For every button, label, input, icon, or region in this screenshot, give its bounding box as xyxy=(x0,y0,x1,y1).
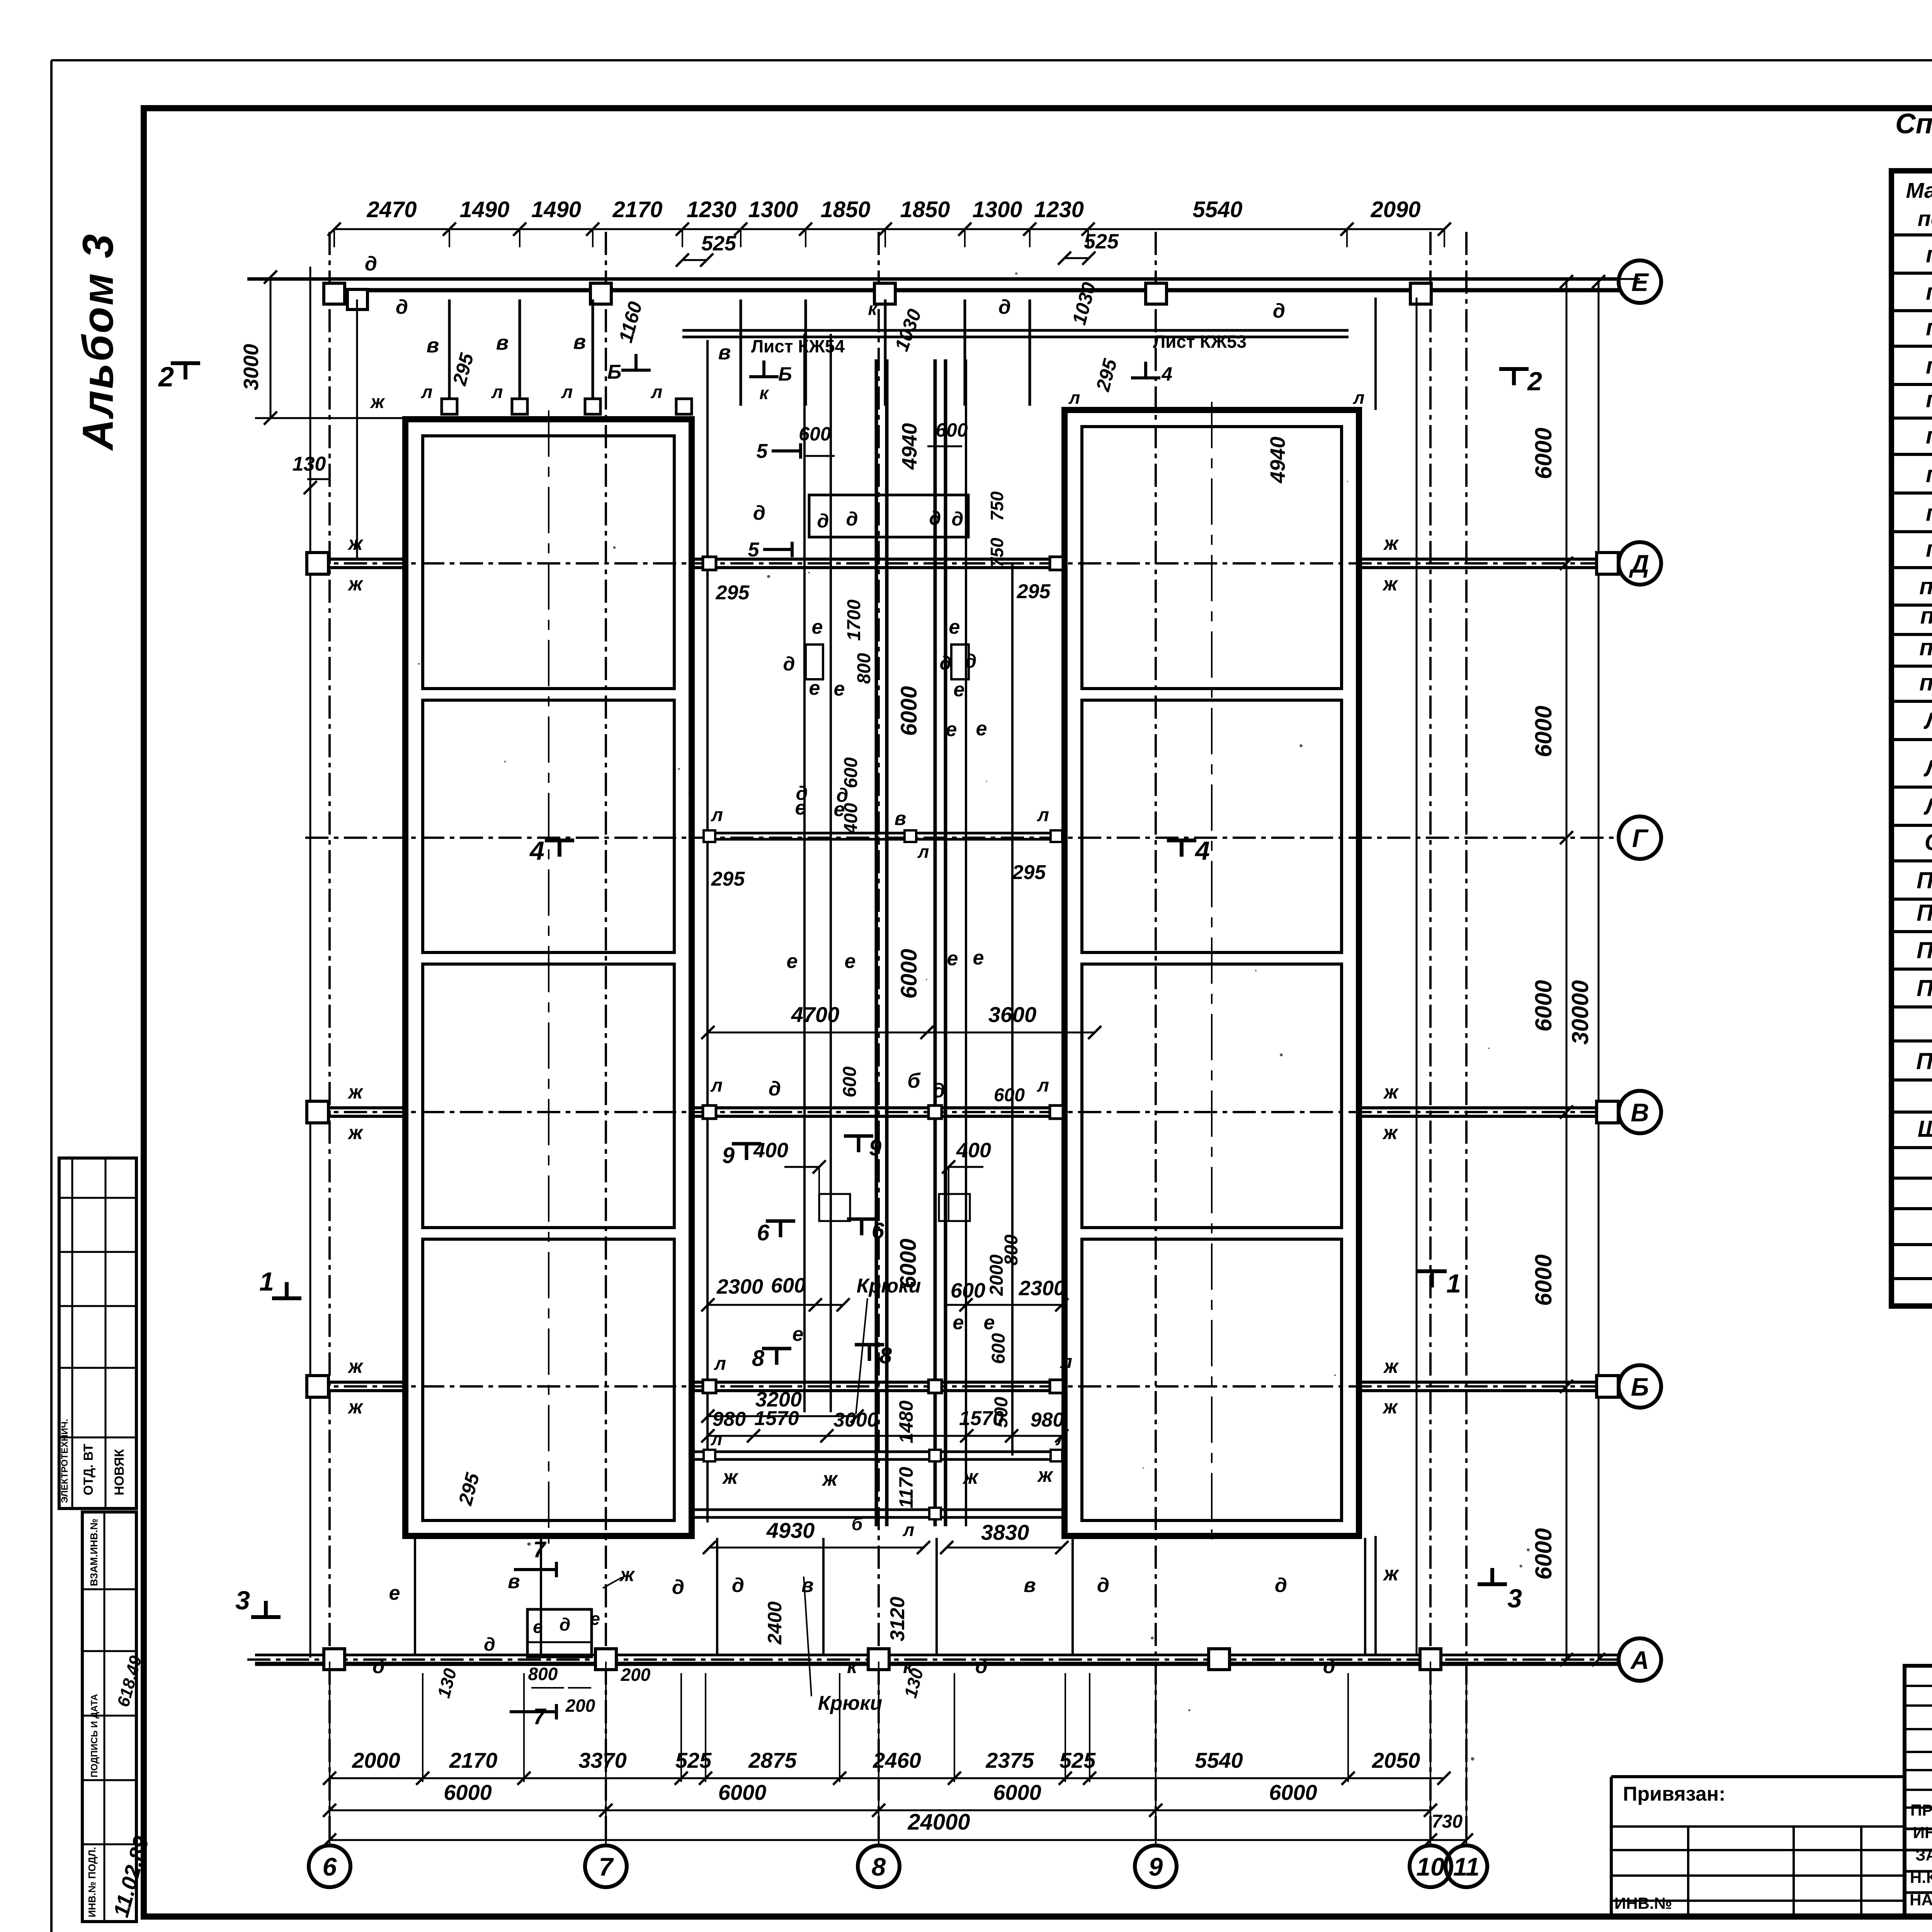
svg-text:ж: ж xyxy=(347,573,364,595)
svg-text:1300: 1300 xyxy=(972,197,1022,222)
svg-text:ПП1: ПП1 xyxy=(1916,1048,1932,1074)
svg-text:6000: 6000 xyxy=(1531,706,1556,757)
svg-text:1490: 1490 xyxy=(531,197,581,222)
corridor beam at axis V xyxy=(695,1106,1062,1109)
svg-text:л: л xyxy=(1060,1352,1072,1372)
svg-text:2400: 2400 xyxy=(764,1601,786,1645)
svg-text:ж: ж xyxy=(619,1564,635,1585)
svg-text:л: л xyxy=(903,1520,915,1540)
privyazan attachment box xyxy=(1611,1775,1905,1778)
svg-text:л: л xyxy=(651,382,663,402)
svg-text:п13: п13 xyxy=(1919,670,1932,696)
svg-text:д: д xyxy=(753,502,765,524)
right tank outer wall xyxy=(1065,410,1359,1536)
svg-text:п10: п10 xyxy=(1919,573,1932,599)
svg-text:д: д xyxy=(1275,1574,1287,1597)
svg-text:л: л xyxy=(1037,805,1049,825)
svg-text:д: д xyxy=(484,1634,495,1655)
svg-text:ж: ж xyxy=(1383,1081,1399,1103)
svg-text:поз.: поз. xyxy=(1918,206,1932,231)
svg-text:НАЧ.ОТД: НАЧ.ОТД xyxy=(1910,1891,1932,1909)
svg-text:Л2: Л2 xyxy=(1923,755,1932,781)
section marker T4 right xyxy=(1180,840,1184,857)
svg-text:д: д xyxy=(940,652,952,674)
svg-text:п12: п12 xyxy=(1919,634,1932,660)
svg-text:ж: ж xyxy=(1037,1464,1054,1486)
svg-text:1: 1 xyxy=(259,1267,274,1296)
beam end plates at tank top xyxy=(442,399,457,414)
svg-text:д: д xyxy=(365,253,377,275)
svg-text:Крюки: Крюки xyxy=(818,1692,883,1714)
svg-text:2470: 2470 xyxy=(366,197,417,222)
svg-text:д: д xyxy=(372,1655,385,1678)
corridor beam at axis B xyxy=(695,1381,1062,1384)
svg-text:л: л xyxy=(561,382,573,402)
svg-text:ж: ж xyxy=(962,1466,979,1488)
svg-text:1170: 1170 xyxy=(895,1467,917,1509)
svg-text:600: 600 xyxy=(951,1279,985,1302)
svg-text:5540: 5540 xyxy=(1192,197,1242,222)
section marker T1 right xyxy=(1430,1271,1434,1287)
svg-text:ИНЖЕН.: ИНЖЕН. xyxy=(1913,1823,1932,1842)
svg-text:к: к xyxy=(868,299,878,319)
corridor beam y3917 xyxy=(695,1509,1062,1511)
axis circles right E D G V B A xyxy=(1619,260,1661,303)
svg-text:1850: 1850 xyxy=(900,197,950,222)
svg-text:6000: 6000 xyxy=(1531,428,1556,479)
svg-text:ж: ж xyxy=(1382,1396,1398,1418)
svg-text:6: 6 xyxy=(757,1220,770,1245)
svg-text:1: 1 xyxy=(1446,1269,1461,1298)
extension lines bottom xyxy=(329,1662,330,1845)
svg-text:е: е xyxy=(793,1323,804,1345)
svg-text:е: е xyxy=(946,718,957,741)
svg-text:л: л xyxy=(917,842,929,862)
svg-text:д: д xyxy=(1097,1574,1109,1597)
svg-text:НОВЯК: НОВЯК xyxy=(112,1449,127,1495)
small beam detail rects D-G band xyxy=(806,645,823,679)
svg-text:Марка: Марка xyxy=(1906,178,1932,202)
svg-text:24000: 24000 xyxy=(907,1810,970,1835)
spec table grid xyxy=(1891,171,1932,1306)
svg-text:л: л xyxy=(421,382,433,402)
svg-text:Н.КОНТР: Н.КОНТР xyxy=(1910,1868,1932,1886)
svg-text:ПЛ1: ПЛ1 xyxy=(1917,867,1932,893)
svg-text:Б: Б xyxy=(1631,1372,1649,1401)
svg-text:в: в xyxy=(496,331,509,354)
svg-text:6: 6 xyxy=(872,1218,884,1243)
svg-text:ж: ж xyxy=(1382,1122,1398,1143)
sub-dimension 525 right xyxy=(1065,257,1089,259)
svg-text:б: б xyxy=(852,1514,863,1534)
svg-text:800: 800 xyxy=(528,1664,558,1684)
svg-text:ж: ж xyxy=(1383,532,1399,554)
svg-text:3370: 3370 xyxy=(578,1748,627,1772)
svg-text:3000: 3000 xyxy=(240,344,263,390)
axis circles bottom 6-11 xyxy=(309,1845,350,1887)
svg-text:2375: 2375 xyxy=(985,1748,1034,1772)
svg-text:5540: 5540 xyxy=(1195,1748,1243,1772)
columns on axis A xyxy=(324,1649,345,1670)
right dimension line 30000 total xyxy=(1598,282,1600,1660)
svg-text:525: 525 xyxy=(1084,230,1119,253)
svg-text:1230: 1230 xyxy=(687,197,736,222)
dim 730 bottom right xyxy=(1430,1839,1466,1841)
svg-text:п8: п8 xyxy=(1926,500,1932,526)
svg-text:ж: ж xyxy=(347,1122,364,1143)
svg-text:3: 3 xyxy=(235,1586,250,1615)
svg-text:9: 9 xyxy=(1149,1852,1163,1881)
svg-text:3: 3 xyxy=(1507,1584,1522,1613)
svg-text:д: д xyxy=(769,1078,781,1100)
svg-text:в: в xyxy=(427,334,439,357)
svg-text:ж: ж xyxy=(347,1081,364,1103)
vertical beams tank bottom to axis A xyxy=(414,1538,416,1654)
svg-text:200: 200 xyxy=(621,1665,651,1685)
svg-text:ИНВ.№ ПОДЛ.: ИНВ.№ ПОДЛ. xyxy=(86,1847,98,1917)
svg-text:ПОДПИСЬ И ДАТА: ПОДПИСЬ И ДАТА xyxy=(89,1694,100,1777)
svg-text:6000: 6000 xyxy=(1531,980,1556,1031)
svg-text:Б: Б xyxy=(778,363,792,385)
dim 3000 left vertical xyxy=(270,277,272,418)
svg-text:2875: 2875 xyxy=(748,1748,797,1772)
svg-text:6000: 6000 xyxy=(896,949,922,998)
svg-text:2: 2 xyxy=(158,362,174,393)
svg-text:ИНВ.№: ИНВ.№ xyxy=(1614,1894,1672,1912)
svg-text:Л1: Л1 xyxy=(1923,708,1932,734)
svg-text:е: е xyxy=(845,950,856,973)
svg-text:В: В xyxy=(1631,1098,1649,1127)
svg-text:д: д xyxy=(783,653,795,675)
svg-text:6000: 6000 xyxy=(444,1780,492,1804)
svg-text:2170: 2170 xyxy=(612,197,662,222)
svg-text:д: д xyxy=(796,782,808,804)
svg-text:2050: 2050 xyxy=(1372,1748,1420,1772)
svg-text:2300: 2300 xyxy=(716,1275,763,1298)
svg-text:д: д xyxy=(732,1574,744,1597)
svg-text:3120: 3120 xyxy=(886,1597,909,1641)
svg-text:л: л xyxy=(1068,388,1080,408)
svg-text:5: 5 xyxy=(757,440,768,463)
svg-text:в: в xyxy=(508,1570,520,1593)
svg-text:2090: 2090 xyxy=(1370,197,1420,222)
svg-text:ПРОВЕР.: ПРОВЕР. xyxy=(1910,1801,1932,1819)
svg-text:3600: 3600 xyxy=(988,1002,1037,1027)
platform detail rect upper corridor xyxy=(809,495,968,537)
svg-text:800: 800 xyxy=(854,653,874,684)
svg-text:в: в xyxy=(718,341,731,364)
svg-text:в: в xyxy=(1024,1574,1036,1597)
svg-text:д: д xyxy=(560,1614,570,1634)
svg-text:к: к xyxy=(847,1655,858,1678)
svg-text:е: е xyxy=(953,1311,964,1334)
svg-text:ПЛ4: ПЛ4 xyxy=(1917,975,1932,1001)
svg-text:1490: 1490 xyxy=(459,197,509,222)
svg-text:л: л xyxy=(710,1075,723,1096)
svg-text:295: 295 xyxy=(716,582,750,604)
svg-text:600: 600 xyxy=(935,419,968,441)
svg-text:е: е xyxy=(834,678,845,700)
columns on axis E xyxy=(324,283,345,304)
svg-text:е: е xyxy=(389,1582,400,1604)
svg-text:7: 7 xyxy=(599,1852,614,1881)
svg-text:в: в xyxy=(895,808,906,829)
svg-text:Л3: Л3 xyxy=(1923,794,1932,820)
svg-text:ж: ж xyxy=(347,532,364,554)
svg-text:д: д xyxy=(952,508,964,530)
svg-text:1570: 1570 xyxy=(754,1407,799,1430)
left tank centerline xyxy=(548,410,549,1544)
svg-text:ж: ж xyxy=(369,392,385,412)
svg-text:295: 295 xyxy=(1017,580,1051,603)
svg-text:600: 600 xyxy=(841,757,861,788)
svg-text:е: е xyxy=(787,950,798,973)
svg-text:д: д xyxy=(965,650,977,672)
svg-text:е: е xyxy=(812,616,823,638)
svg-text:л: л xyxy=(491,382,503,402)
outer border frame xyxy=(51,59,1932,61)
svg-text:11: 11 xyxy=(1453,1852,1480,1881)
svg-text:4940: 4940 xyxy=(1266,437,1289,483)
svg-text:б: б xyxy=(907,1069,921,1092)
bottom dimension row 2 6000s xyxy=(330,1810,1430,1811)
svg-text:9: 9 xyxy=(869,1135,881,1160)
sub-dimension 525 left xyxy=(682,259,707,261)
svg-text:п11: п11 xyxy=(1920,603,1932,629)
bottom dimension row 1 xyxy=(330,1777,1444,1779)
svg-text:е: е xyxy=(590,1609,600,1629)
svg-text:А: А xyxy=(1630,1646,1649,1674)
svg-text:д: д xyxy=(396,296,408,318)
svg-text:С1: С1 xyxy=(1925,829,1932,855)
svg-text:д: д xyxy=(1323,1655,1335,1678)
svg-text:Щ-1: Щ-1 xyxy=(1918,1116,1932,1142)
corridor beam y3767 xyxy=(695,1451,1062,1453)
svg-text:7: 7 xyxy=(533,1537,547,1562)
svg-text:750: 750 xyxy=(987,537,1007,567)
svg-text:5: 5 xyxy=(748,539,760,561)
svg-text:л: л xyxy=(1353,388,1365,408)
svg-text:525: 525 xyxy=(701,232,736,255)
svg-text:2170: 2170 xyxy=(449,1748,498,1772)
svg-text:п1: п1 xyxy=(1926,241,1932,267)
svg-text:Д: Д xyxy=(1629,549,1649,578)
svg-text:п3: п3 xyxy=(1926,315,1932,340)
svg-text:ЗАВ.ГР.: ЗАВ.ГР. xyxy=(1915,1846,1932,1864)
svg-text:л: л xyxy=(714,1354,726,1374)
beam along axis E xyxy=(247,277,1619,281)
dim row 980 1570 3000 1570 980 xyxy=(708,1435,1062,1437)
svg-text:8: 8 xyxy=(872,1852,886,1881)
svg-text:4700: 4700 xyxy=(791,1002,840,1027)
svg-text:30000: 30000 xyxy=(1567,980,1593,1045)
svg-text:к: к xyxy=(759,383,769,403)
svg-text:400: 400 xyxy=(956,1139,991,1162)
svg-text:130: 130 xyxy=(293,453,326,475)
left tank inner cells xyxy=(423,436,674,689)
svg-text:е: е xyxy=(533,1617,543,1637)
svg-text:д: д xyxy=(975,1655,988,1678)
svg-text:п9: п9 xyxy=(1926,536,1932,562)
vertical beams between axis E and tank top xyxy=(448,299,451,406)
left tank outer wall xyxy=(405,419,692,1536)
svg-text:д: д xyxy=(846,508,858,530)
svg-text:1850: 1850 xyxy=(820,197,870,222)
svg-text:Привязан:: Привязан: xyxy=(1623,1783,1726,1805)
svg-text:2460: 2460 xyxy=(872,1748,921,1772)
corridor beam at axis G xyxy=(709,832,1056,835)
svg-text:2000: 2000 xyxy=(352,1748,400,1772)
svg-text:1230: 1230 xyxy=(1034,197,1084,222)
svg-text:600: 600 xyxy=(840,1066,860,1097)
svg-text:ж: ж xyxy=(347,1355,364,1377)
svg-text:4: 4 xyxy=(1161,363,1172,385)
svg-text:9: 9 xyxy=(722,1143,735,1168)
svg-text:п5: п5 xyxy=(1926,386,1932,412)
svg-text:в: в xyxy=(573,330,586,354)
svg-text:Е: Е xyxy=(1631,268,1649,296)
right tank centerline xyxy=(1211,402,1213,1544)
dim 4700 3600 xyxy=(708,1032,1095,1034)
svg-text:1480: 1480 xyxy=(895,1400,917,1443)
svg-text:д: д xyxy=(672,1576,684,1599)
svg-text:3830: 3830 xyxy=(981,1520,1029,1544)
right tank inner cells xyxy=(1082,427,1342,689)
svg-text:е: е xyxy=(947,947,958,970)
corridor beam at axis D xyxy=(695,558,1062,561)
svg-text:е: е xyxy=(809,677,820,699)
svg-text:6: 6 xyxy=(323,1852,337,1881)
svg-text:д: д xyxy=(1273,300,1285,322)
svg-text:д: д xyxy=(817,510,829,532)
beam along axis A xyxy=(255,1654,1619,1656)
svg-text:6000: 6000 xyxy=(1531,1254,1556,1306)
svg-text:4930: 4930 xyxy=(766,1518,815,1543)
central channel walls xyxy=(875,359,878,1526)
svg-text:10: 10 xyxy=(1416,1852,1445,1881)
svg-text:л: л xyxy=(1056,1429,1068,1449)
svg-text:500: 500 xyxy=(991,1397,1012,1428)
svg-text:6000: 6000 xyxy=(993,1780,1041,1804)
svg-text:ВЗАМ.ИНВ.№: ВЗАМ.ИНВ.№ xyxy=(88,1519,100,1586)
title block signature table xyxy=(1905,1666,1932,1917)
bottom dimension row 3 24000 xyxy=(330,1839,1430,1841)
svg-text:Б: Б xyxy=(607,361,622,383)
svg-text:2: 2 xyxy=(1527,367,1542,396)
svg-text:д: д xyxy=(837,784,849,806)
svg-text:200: 200 xyxy=(565,1696,595,1716)
svg-text:ПЛ3: ПЛ3 xyxy=(1917,937,1932,963)
right dimension line 6000 intervals xyxy=(1566,282,1568,1660)
svg-text:е: е xyxy=(984,1311,995,1334)
svg-text:п6: п6 xyxy=(1926,423,1932,449)
svg-text:750: 750 xyxy=(987,491,1007,521)
corridor side beams xyxy=(706,340,709,1522)
svg-text:л: л xyxy=(711,1429,723,1449)
svg-text:4: 4 xyxy=(529,836,544,866)
svg-text:Альбом 3: Альбом 3 xyxy=(74,233,122,451)
svg-text:д: д xyxy=(933,1080,945,1102)
svg-text:800: 800 xyxy=(1001,1235,1022,1265)
dim 2300 600 left xyxy=(708,1304,843,1306)
svg-text:730: 730 xyxy=(1432,1811,1463,1832)
svg-text:Лист КЖ53: Лист КЖ53 xyxy=(1153,332,1247,352)
svg-text:ОТД. ВТ: ОТД. ВТ xyxy=(81,1444,96,1495)
dim 3200 xyxy=(708,1415,857,1417)
svg-text:980: 980 xyxy=(1031,1409,1064,1431)
svg-text:ж: ж xyxy=(347,1396,364,1418)
svg-text:ж: ж xyxy=(821,1468,838,1490)
svg-text:Спецификация элементов к схеме: Спецификация элементов к схеме расположе… xyxy=(1895,108,1932,139)
section marker 3 bottom right xyxy=(1490,1568,1494,1584)
svg-text:1700: 1700 xyxy=(844,599,864,641)
svg-text:ж: ж xyxy=(1382,573,1398,595)
svg-text:п4: п4 xyxy=(1926,353,1932,379)
svg-text:л: л xyxy=(1037,1075,1049,1096)
left margin stamp table upper xyxy=(59,1158,136,1509)
right margin beams and end plates xyxy=(1359,558,1607,561)
svg-text:ж: ж xyxy=(1383,1563,1400,1585)
svg-text:Крюки: Крюки xyxy=(857,1275,921,1297)
svg-text:ЭЛЕКТРОТЕХНИЧ.: ЭЛЕКТРОТЕХНИЧ. xyxy=(60,1419,70,1503)
svg-text:6000: 6000 xyxy=(1269,1780,1317,1804)
svg-text:л: л xyxy=(711,805,723,825)
top dimension line with beam spacings xyxy=(334,228,1444,230)
svg-text:600: 600 xyxy=(771,1274,806,1297)
svg-text:ж: ж xyxy=(1383,1355,1399,1377)
svg-text:8: 8 xyxy=(879,1343,892,1368)
svg-text:е: е xyxy=(976,718,987,740)
svg-text:д: д xyxy=(929,507,941,529)
svg-text:6000: 6000 xyxy=(1531,1528,1556,1580)
svg-text:д: д xyxy=(998,296,1011,318)
svg-text:4: 4 xyxy=(1194,836,1210,866)
svg-text:6000: 6000 xyxy=(718,1780,767,1804)
svg-text:980: 980 xyxy=(713,1408,746,1430)
section marker T2 right top xyxy=(1512,369,1516,385)
left margin stamp table lower xyxy=(82,1512,136,1922)
svg-text:п7: п7 xyxy=(1926,461,1932,487)
left margin beams and end plates xyxy=(310,267,311,1658)
dim 600 2300 right xyxy=(946,1304,1062,1306)
svg-text:Г: Г xyxy=(1632,824,1649,852)
beam row below axis E xyxy=(682,329,1349,332)
small detail box above axis A xyxy=(527,1609,592,1657)
svg-text:е: е xyxy=(954,679,965,701)
svg-text:ПЛ2: ПЛ2 xyxy=(1917,900,1932,926)
svg-text:п2: п2 xyxy=(1926,279,1932,305)
svg-text:2300: 2300 xyxy=(1019,1277,1065,1300)
svg-text:е: е xyxy=(949,616,960,638)
svg-text:600: 600 xyxy=(994,1085,1025,1105)
svg-text:4940: 4940 xyxy=(898,423,921,470)
svg-text:295: 295 xyxy=(711,868,745,890)
svg-text:295: 295 xyxy=(1012,861,1046,884)
vertical axis lines 6-11 xyxy=(328,232,331,1845)
svg-text:600: 600 xyxy=(988,1333,1009,1364)
svg-text:600: 600 xyxy=(799,423,831,445)
svg-text:е: е xyxy=(973,947,984,969)
svg-text:6000: 6000 xyxy=(896,686,922,736)
horizontal axis lines xyxy=(1619,278,1640,280)
svg-text:7: 7 xyxy=(533,1704,547,1729)
svg-text:ж: ж xyxy=(722,1466,739,1488)
svg-text:1300: 1300 xyxy=(748,197,798,222)
